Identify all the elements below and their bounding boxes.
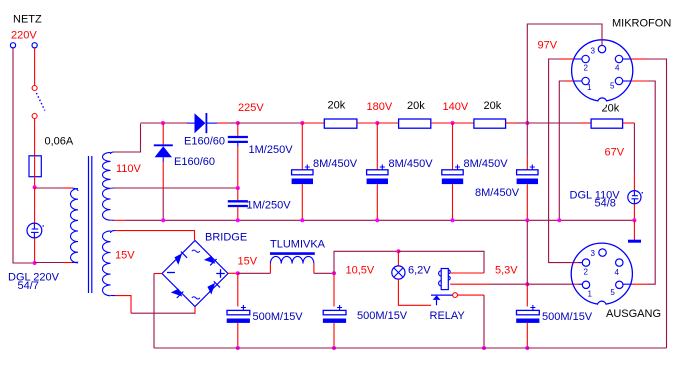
svg-text:5: 5	[610, 82, 615, 91]
node 180V	[375, 121, 379, 125]
node 140V	[451, 121, 455, 125]
wire bridge minus lead	[154, 273, 162, 275]
node center tap	[236, 186, 240, 190]
node lamp mid bus	[632, 218, 636, 222]
wire 140V to R3	[453, 122, 474, 124]
top bus segment A	[141, 122, 163, 124]
node 97V	[525, 121, 529, 125]
connector AUSGANG pin 5	[616, 281, 623, 288]
wire relay coil bottom 5,3V	[450, 283, 527, 285]
wire D2 cathode lead	[162, 123, 164, 144]
svg-text:500M/15V: 500M/15V	[253, 311, 304, 323]
wire 97V node down	[526, 220, 528, 284]
wire 180V to R2	[377, 122, 398, 124]
wire contact corner to bottom bus	[483, 295, 485, 348]
svg-text:8M/450V: 8M/450V	[464, 158, 509, 170]
svg-text:10,5V: 10,5V	[346, 265, 375, 277]
svg-text:1M/250V: 1M/250V	[249, 144, 294, 156]
svg-text:220V: 220V	[11, 30, 37, 42]
wire mic pin1 to mid bus	[559, 81, 573, 220]
node 8M cap1 bottom	[300, 218, 304, 222]
capacitor 8M/450V no2	[367, 123, 388, 220]
svg-text:8M/450V: 8M/450V	[475, 187, 520, 199]
terminal left	[10, 43, 15, 48]
svg-text:5: 5	[610, 288, 615, 297]
node 97V mid bus	[525, 218, 529, 222]
connector AUSGANG body	[571, 243, 632, 310]
pin labels MIKROFON	[584, 47, 621, 93]
svg-text:2: 2	[584, 267, 589, 276]
connector MIKROFON pin 2	[574, 55, 590, 62]
top bus segment C	[217, 122, 237, 124]
wire C1 to tap node	[237, 147, 239, 189]
wire 110V top lead	[114, 124, 141, 152]
resistor 20k no4	[591, 119, 623, 128]
svg-text:BRIDGE: BRIDGE	[205, 232, 247, 244]
wire rail to relay corner	[398, 251, 484, 273]
capacitor 8M/450V no4	[517, 123, 538, 220]
svg-text:5,3V: 5,3V	[495, 265, 518, 277]
svg-text:180V: 180V	[367, 101, 393, 113]
svg-text:1M/250V: 1M/250V	[247, 200, 292, 212]
svg-text:500M/15V: 500M/15V	[357, 310, 408, 322]
svg-text:E160/60: E160/60	[174, 156, 215, 168]
transformer 15V winding	[102, 231, 115, 296]
svg-text:67V: 67V	[605, 146, 625, 158]
connector MIKROFON pin 5	[615, 77, 631, 84]
pin labels AUSGANG	[584, 249, 620, 298]
transformer primary winding	[71, 188, 79, 263]
bridge mark ac top	[192, 250, 200, 252]
bridge diode bottom-right	[207, 281, 220, 294]
wire plus node to choke	[238, 272, 271, 274]
wire mains neutral	[13, 48, 33, 263]
choke TLUMIVKA	[270, 254, 315, 264]
relay coil	[439, 269, 451, 290]
svg-text:54/8: 54/8	[595, 198, 616, 210]
svg-text:0,06A: 0,06A	[45, 136, 74, 148]
capacitor 8M/450V no1	[292, 123, 313, 220]
svg-text:8M/450V: 8M/450V	[313, 158, 358, 170]
ground	[628, 240, 641, 243]
capacitor 500M/15V no2	[323, 273, 346, 348]
svg-text:15V: 15V	[115, 250, 135, 262]
wire mic pin3 to 97V node	[527, 24, 602, 123]
svg-text:MIKROFON: MIKROFON	[612, 18, 671, 30]
resistor 20k no1	[324, 119, 357, 128]
connector AUSGANG pin 4	[616, 259, 623, 266]
top bus segment B	[164, 122, 187, 124]
wire lamp top lead	[397, 251, 399, 266]
wire switch to fuse	[34, 119, 36, 156]
wire 97V to R4	[527, 122, 591, 124]
diode E160/60 horizontal	[187, 113, 217, 133]
svg-text:54/7: 54/7	[18, 280, 39, 292]
bridge mark ac bottom	[192, 297, 200, 299]
svg-text:97V: 97V	[538, 39, 558, 51]
svg-text:3: 3	[591, 249, 596, 258]
resistor 20k no3	[474, 119, 506, 128]
svg-text:20k: 20k	[407, 100, 425, 112]
svg-text:3: 3	[591, 47, 596, 56]
bridge diode top-left	[175, 252, 188, 265]
bridge mark plus	[216, 269, 224, 277]
connector MIKROFON pin top	[598, 45, 605, 52]
node 225V	[236, 121, 240, 125]
node 5,3V cap	[525, 282, 529, 286]
svg-text:500M/15V: 500M/15V	[542, 311, 593, 323]
wire lamp bottom to contact	[398, 279, 431, 305]
wire bridge bottom lead	[194, 307, 196, 314]
bridge mark minus	[167, 272, 175, 274]
wire red stub primary top	[63, 187, 72, 189]
wire mains live	[34, 48, 36, 86]
wire contact to corner	[458, 294, 485, 296]
wire R3 to 97V node	[506, 122, 528, 124]
svg-text:15V: 15V	[238, 256, 258, 268]
wire R4 to lamp	[623, 123, 635, 191]
node pin1 mid bus	[557, 218, 561, 222]
node contact bottom bus	[482, 346, 486, 350]
svg-text:4: 4	[615, 64, 620, 73]
svg-text:1: 1	[588, 289, 593, 298]
svg-text:E160/60: E160/60	[184, 135, 225, 147]
connector MIKROFON pin 4	[615, 55, 630, 62]
svg-text:110V: 110V	[116, 163, 142, 175]
switch S1	[32, 86, 45, 119]
wire lamp to node2	[34, 238, 36, 263]
wire mic pin2 to ausgang pin2	[549, 59, 583, 263]
capacitor 1M/250V upper	[228, 123, 248, 147]
wire choke left lead	[269, 264, 271, 274]
resistor 20k no2	[399, 119, 431, 128]
wire fuse to node	[34, 177, 36, 188]
wire D2 anode to mid bus	[162, 162, 164, 220]
node 8M cap1 top	[300, 121, 304, 125]
glow lamp DGL 220V	[27, 223, 44, 238]
wire 5,3V to AUSGANG pin1	[527, 283, 582, 285]
relay contact	[431, 293, 458, 306]
wire relay coil top	[450, 272, 484, 274]
wire choke to 10V node	[314, 272, 334, 274]
capacitor 500M/15V no1	[227, 273, 250, 348]
wire to ground	[633, 220, 635, 240]
bridge diode top-right	[204, 256, 217, 265]
wire node to primary top	[35, 187, 72, 189]
fuse 0,06A	[29, 156, 41, 177]
node cap3 bottom bus	[525, 346, 529, 350]
node 8M cap3 bottom	[451, 218, 455, 222]
node cap2 bottom bus	[332, 346, 336, 350]
wire node2 to primary bottom	[35, 262, 63, 264]
wire bus to R1	[302, 122, 324, 124]
svg-text:225V: 225V	[238, 102, 264, 114]
connector AUSGANG pin 2	[582, 259, 589, 266]
connector AUSGANG pin top	[599, 249, 606, 256]
wire node to lamp	[34, 187, 36, 223]
wire choke right lead	[313, 264, 315, 274]
node D2 mid bus	[161, 218, 165, 222]
wire lamp to mid bus	[633, 204, 635, 221]
diode E160/60 vertical	[154, 145, 173, 162]
connector AUSGANG pin 1	[582, 281, 589, 288]
wire 10V node up and right rail	[334, 251, 398, 273]
svg-text:6,2V: 6,2V	[408, 265, 431, 277]
svg-text:RELAY: RELAY	[430, 310, 466, 322]
transformer 110V winding	[102, 152, 114, 220]
svg-text:TLUMIVKA: TLUMIVKA	[270, 238, 326, 250]
capacitor 500M/15V no3	[516, 284, 539, 348]
node diode D2 top	[161, 121, 165, 125]
capacitor 8M/450V no3	[442, 123, 463, 220]
bridge diode bottom-left	[171, 289, 184, 298]
connector MIKROFON body	[572, 40, 633, 107]
svg-text:2: 2	[584, 64, 589, 73]
wire bottom ac link	[131, 312, 195, 314]
wire R1 to 180V	[357, 122, 377, 124]
wire bridge plus lead	[228, 272, 238, 274]
node primary bottom	[33, 261, 37, 265]
wire red stub primary bottom	[63, 262, 72, 264]
svg-text:1: 1	[587, 83, 592, 92]
capacitor 1M/250V lower	[228, 188, 248, 220]
lamp 6,2V	[392, 266, 405, 279]
node cap1 bottom bus	[236, 346, 240, 350]
svg-text:AUSGANG: AUSGANG	[606, 308, 661, 320]
wire R2 to 140V	[431, 122, 453, 124]
svg-text:4: 4	[615, 268, 620, 277]
terminal right	[32, 43, 37, 48]
node C2 mid bus	[236, 218, 240, 222]
wire minus to bottom bus	[153, 274, 155, 349]
svg-text:8M/450V: 8M/450V	[389, 158, 434, 170]
transformer core	[89, 156, 92, 293]
wire mic pin4 down right side	[631, 59, 667, 348]
wire 110V bottom lead red stub	[114, 219, 126, 221]
wire mid bus	[126, 219, 635, 221]
node lamp 6,2V	[396, 249, 400, 253]
bridge rectifier diamond	[162, 241, 228, 307]
svg-text:140V: 140V	[443, 101, 469, 113]
wire mic pin5 to ausgang pin5	[623, 81, 655, 284]
wire 110V center tap	[114, 187, 238, 189]
wire 15V top to bridge	[115, 231, 195, 240]
top bus segment D	[238, 122, 302, 124]
svg-text:20k: 20k	[484, 100, 502, 112]
svg-text:20k: 20k	[328, 100, 346, 112]
node 15V out	[236, 271, 240, 275]
node 8M cap2 bottom	[375, 218, 379, 222]
node 10,5V	[332, 271, 336, 275]
node primary top	[33, 185, 37, 189]
connector MIKROFON pin 1	[574, 77, 590, 84]
wire 15V bottom lead	[115, 296, 131, 314]
svg-text:NETZ: NETZ	[13, 14, 42, 26]
bottom bus	[154, 347, 667, 349]
glow lamp DGL 110V	[628, 191, 643, 204]
